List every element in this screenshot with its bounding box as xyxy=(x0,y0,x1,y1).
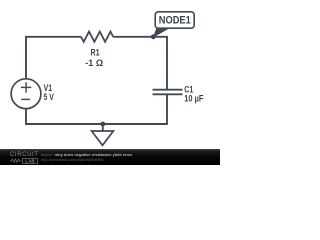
svg-text:NODE1: NODE1 xyxy=(159,15,191,27)
watermark url line 2 xyxy=(41,157,103,162)
capacitor C1 xyxy=(153,90,183,95)
watermark CircuitLab logo xyxy=(10,152,40,163)
watermark url line 1 xyxy=(41,152,132,157)
svg-text:R1: R1 xyxy=(91,48,100,58)
svg-text:10 µF: 10 µF xyxy=(184,93,204,103)
node NODE1 flag pointer xyxy=(153,27,171,38)
wire right vertical lower segment xyxy=(166,94,168,125)
wire left vertical upper segment xyxy=(25,36,27,79)
svg-text:LAB: LAB xyxy=(25,159,35,164)
node NODE1 label box xyxy=(155,12,194,28)
junction dot NODE1 xyxy=(151,34,156,39)
watermark footer bar xyxy=(0,149,220,165)
resistor R1 xyxy=(81,32,113,42)
wire left vertical lower segment xyxy=(25,109,27,125)
ground xyxy=(92,124,114,145)
svg-text:-1 Ω: -1 Ω xyxy=(85,58,103,68)
voltage source V1 xyxy=(11,79,41,109)
wire top-right horizontal segment xyxy=(113,36,167,38)
wire right vertical upper segment xyxy=(166,36,168,90)
junction dot ground node xyxy=(100,122,105,127)
svg-text:5 V: 5 V xyxy=(44,92,54,102)
wire top-left horizontal segment xyxy=(26,36,81,38)
wire bottom horizontal segment xyxy=(26,123,167,125)
